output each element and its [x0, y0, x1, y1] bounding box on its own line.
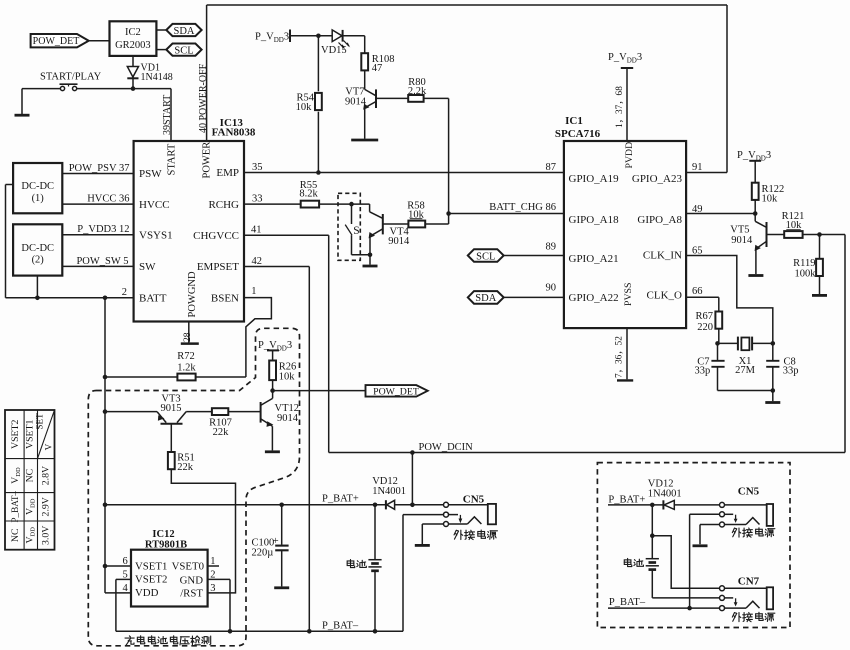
svg-text:39START: 39START [162, 95, 173, 135]
svg-text:66: 66 [692, 286, 703, 297]
svg-text:SDA: SDA [173, 26, 194, 37]
svg-text:1N4148: 1N4148 [141, 72, 173, 83]
svg-text:R72: R72 [177, 351, 195, 362]
svg-text:2.8V: 2.8V [41, 466, 52, 485]
svg-text:VSET2: VSET2 [10, 420, 21, 449]
svg-text:10k: 10k [279, 372, 296, 383]
svg-text:1N4001: 1N4001 [372, 486, 406, 497]
svg-text:IC1: IC1 [565, 115, 583, 127]
svg-text:41: 41 [251, 225, 262, 236]
svg-text:VD15: VD15 [321, 45, 347, 56]
svg-text:+: + [273, 536, 279, 547]
svg-text:9014: 9014 [388, 236, 410, 247]
svg-text:/RST: /RST [180, 588, 203, 600]
svg-text:87: 87 [546, 162, 557, 173]
svg-text:100k: 100k [795, 268, 817, 279]
svg-text:3: 3 [210, 583, 215, 594]
svg-text:VSET0: VSET0 [172, 560, 204, 572]
svg-text:2.9V: 2.9V [41, 497, 52, 516]
svg-text:1N4001: 1N4001 [648, 488, 682, 499]
svg-text:SCL: SCL [476, 251, 495, 262]
svg-text:9014: 9014 [345, 96, 367, 107]
svg-text:2.2k: 2.2k [408, 86, 427, 97]
svg-text:42: 42 [252, 256, 263, 267]
svg-text:POW_DET: POW_DET [33, 36, 80, 47]
svg-text:SPCA716: SPCA716 [555, 128, 601, 140]
svg-text:GPIO_A23: GPIO_A23 [632, 173, 683, 185]
svg-text:P_VDD3: P_VDD3 [608, 52, 642, 64]
svg-text:GIPO_A8: GIPO_A8 [637, 214, 682, 226]
svg-text:PVSS: PVSS [623, 283, 634, 306]
svg-text:22k: 22k [213, 427, 230, 438]
svg-text:SCL: SCL [174, 45, 193, 56]
svg-text:PSW: PSW [139, 168, 162, 180]
svg-text:4: 4 [123, 583, 129, 594]
svg-text:POW_PSV 37: POW_PSV 37 [69, 163, 130, 174]
svg-text:(2): (2) [32, 255, 45, 266]
svg-text:7，36，52: 7，36，52 [615, 336, 625, 378]
svg-text:P_BAT+: P_BAT+ [322, 493, 359, 504]
svg-text:PVDD: PVDD [624, 142, 635, 169]
svg-text:1.2k: 1.2k [177, 363, 196, 374]
svg-text:2: 2 [122, 287, 127, 298]
svg-text:DC-DC: DC-DC [21, 181, 54, 192]
svg-text:9014: 9014 [731, 235, 753, 246]
svg-text:START: START [167, 143, 178, 175]
svg-text:5: 5 [123, 570, 128, 581]
svg-text:CLK_O: CLK_O [647, 290, 683, 302]
svg-text:CLK_IN: CLK_IN [643, 250, 682, 262]
svg-text:VDD: VDD [135, 587, 159, 599]
svg-text:SW: SW [139, 261, 156, 273]
svg-text:8.2k: 8.2k [299, 188, 318, 199]
svg-text:220: 220 [697, 322, 713, 333]
svg-text:R67: R67 [695, 311, 713, 322]
svg-text:P_BAT–: P_BAT– [10, 491, 20, 523]
svg-text:P_BAT–: P_BAT– [609, 597, 646, 608]
svg-text:35: 35 [252, 162, 263, 173]
svg-text:POW_SW 5: POW_SW 5 [76, 256, 128, 267]
svg-text:10k: 10k [762, 193, 779, 204]
svg-text:SET: SET [34, 413, 44, 430]
svg-text:40 POWER-OFF: 40 POWER-OFF [198, 63, 209, 133]
svg-text:IC2: IC2 [125, 27, 141, 38]
svg-text:33p: 33p [783, 365, 799, 376]
svg-text:27M: 27M [735, 365, 756, 376]
svg-text:89: 89 [546, 242, 557, 253]
svg-text:VSET2: VSET2 [135, 574, 167, 586]
svg-text:GR2003: GR2003 [115, 40, 151, 51]
svg-text:POW_DET: POW_DET [373, 386, 419, 397]
svg-text:VSYS1: VSYS1 [139, 229, 173, 241]
svg-text:GIPO_A18: GIPO_A18 [569, 214, 620, 226]
svg-text:91: 91 [692, 162, 703, 173]
svg-text:GPIO_A21: GPIO_A21 [569, 253, 619, 265]
svg-text:POWGND: POWGND [187, 271, 198, 317]
svg-text:1: 1 [251, 286, 256, 297]
svg-text:22k: 22k [177, 462, 194, 473]
svg-text:EMPSET: EMPSET [197, 261, 239, 273]
svg-text:9015: 9015 [161, 403, 182, 414]
svg-text:47: 47 [372, 63, 383, 74]
svg-text:BATT_CHG 86: BATT_CHG 86 [489, 202, 556, 213]
svg-text:33p: 33p [695, 365, 711, 376]
svg-text:28: 28 [183, 332, 193, 342]
svg-text:BATT: BATT [139, 293, 167, 305]
svg-text:S: S [353, 225, 359, 237]
svg-text:P_BAT–: P_BAT– [322, 620, 359, 631]
svg-text:CN5: CN5 [463, 493, 485, 505]
svg-text:10k: 10k [296, 102, 313, 113]
svg-text:P_VDD3: P_VDD3 [255, 32, 289, 44]
svg-text:DC-DC: DC-DC [21, 243, 54, 254]
svg-text:HVCC: HVCC [139, 199, 170, 211]
svg-text:FAN8038: FAN8038 [212, 126, 256, 138]
svg-text:POW_DCIN: POW_DCIN [419, 442, 474, 453]
svg-text:NC: NC [10, 528, 21, 542]
svg-text:VSET1: VSET1 [135, 560, 167, 572]
svg-text:SDA: SDA [475, 293, 496, 304]
svg-text:CN5: CN5 [738, 485, 760, 497]
svg-text:CHGVCC: CHGVCC [193, 230, 239, 242]
svg-text:1: 1 [210, 556, 215, 567]
svg-text:HVCC 36: HVCC 36 [87, 194, 129, 205]
svg-text:(1): (1) [32, 193, 45, 204]
svg-text:P_VDD3 12: P_VDD3 12 [77, 224, 129, 235]
svg-text:RT9801B: RT9801B [145, 539, 187, 550]
svg-text:9014: 9014 [277, 413, 299, 424]
svg-text:GPIO_A19: GPIO_A19 [569, 173, 620, 185]
svg-text:NC: NC [25, 469, 36, 483]
svg-text:90: 90 [546, 283, 557, 294]
svg-text:EMP: EMP [216, 167, 239, 179]
svg-text:GPIO_A22: GPIO_A22 [569, 292, 619, 304]
svg-text:220µ: 220µ [252, 548, 274, 559]
svg-text:1，37，68: 1，37，68 [615, 86, 625, 128]
svg-text:V: V [44, 443, 54, 450]
svg-text:START/PLAY: START/PLAY [40, 71, 102, 82]
svg-text:GND: GND [180, 575, 204, 587]
svg-text:2: 2 [210, 570, 215, 581]
svg-text:RCHG: RCHG [208, 199, 239, 211]
svg-text:3.0V: 3.0V [41, 526, 52, 545]
svg-text:65: 65 [692, 245, 703, 256]
svg-text:BSEN: BSEN [211, 292, 239, 304]
svg-text:POWER: POWER [202, 142, 213, 179]
svg-text:P_BAT+: P_BAT+ [608, 495, 645, 506]
svg-text:CN7: CN7 [738, 576, 760, 588]
svg-text:6: 6 [123, 556, 128, 567]
svg-text:33: 33 [252, 194, 263, 205]
